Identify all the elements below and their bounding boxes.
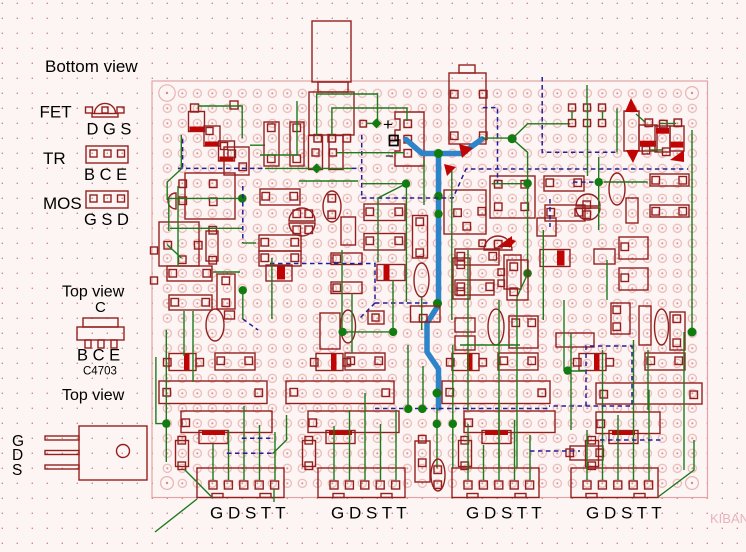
wire ch4 vertical b (606, 260, 608, 300)
legend MOS package symbol (86, 191, 128, 208)
junction right top (595, 178, 603, 186)
capacitor C7 vertical (504, 255, 521, 289)
pads below potentiometer (312, 149, 319, 156)
output connector CN4 wires (586, 430, 588, 480)
potentiometer VR1 base on board (309, 92, 354, 135)
junction on blue trace mid1 (434, 192, 442, 200)
capacitor D1f vertical (176, 441, 189, 467)
transistor pad block (224, 147, 249, 175)
jumper wire dashed mid horizontal (270, 264, 375, 304)
red arrow near blue trace (459, 144, 473, 158)
resistor R13 vertical (413, 216, 428, 259)
wire mid right down (527, 184, 529, 274)
label E terminal (390, 136, 399, 146)
wire ch1 diag u2 (167, 245, 181, 259)
wire connector1 diagonal off board (155, 499, 197, 532)
jumper wire dashed main horizontal b (352, 167, 362, 169)
output connector CN4 notch left (586, 494, 597, 498)
block mid right (537, 218, 556, 236)
output connector CN3 pads (464, 481, 472, 489)
wire pad link c (602, 111, 604, 120)
block ch3 a (455, 318, 475, 332)
output connector CN1 pads (209, 481, 217, 489)
wire top-left bend (167, 135, 181, 200)
wire conn1 pad5 down (273, 489, 275, 502)
transistor Q5 ellipse (414, 263, 429, 297)
wire ch1 vertical b (192, 311, 194, 382)
transistor Q9 ellipse (609, 173, 625, 205)
jumper wire dashed main horizontal (178, 167, 265, 169)
red arrow ch4 down (626, 150, 639, 163)
block U2 tall (159, 222, 199, 266)
wire right horizontal y182 (604, 181, 648, 183)
resistor R19 vertical tall (624, 111, 639, 151)
output connector CN2 notch right (381, 494, 392, 498)
resistor R6 horizontal (169, 295, 212, 310)
wire green row y181 (299, 180, 358, 182)
wire top right diag (636, 114, 645, 122)
legend TO-92 package top view (77, 318, 124, 348)
wire pot area a (317, 94, 378, 136)
diode D1a with band (169, 354, 196, 371)
power terminal J1 body (395, 112, 424, 166)
pad near power terminal (360, 121, 367, 128)
wire ch1 vertical c (177, 186, 179, 266)
wire connector1 diagonal (184, 469, 212, 498)
resistor D4d long (596, 412, 660, 434)
mounting hole top-left (159, 85, 175, 101)
potentiometer VR1 pins (314, 135, 322, 143)
wire q5 down (421, 297, 423, 330)
thick blue trace right arm (439, 139, 483, 154)
transistor Q8 ellipse (488, 309, 504, 345)
resistor R4 small vertical (206, 231, 218, 261)
wire ch3 right vertical (542, 230, 544, 320)
wire mid right horizontal (492, 183, 528, 185)
resistor D4b horizontal (645, 353, 685, 370)
jumper wire dashed bottom left (227, 452, 273, 454)
svg-text:MOS: MOS (43, 194, 82, 213)
junction blue-end (508, 134, 517, 143)
transistor Q2 dome up (289, 208, 315, 221)
red arrow q7 (508, 238, 516, 248)
pad ch4 d (642, 147, 650, 155)
wire right grid vertical (616, 109, 618, 153)
output connector CN2 body (318, 468, 405, 498)
IC U3 outline (444, 190, 486, 234)
resistor D4c long (596, 383, 702, 404)
wire left long vertical (165, 330, 167, 462)
resistor D3b horizontal (498, 353, 538, 370)
block ch4 mid b (619, 268, 648, 290)
trimmer D2e (326, 431, 355, 444)
pad ch4 c (674, 119, 682, 127)
resistor R5 horizontal (167, 266, 212, 281)
resistor R16 horizontal (545, 205, 585, 221)
jumper wire dashed bottom mid (600, 439, 661, 441)
svg-text:TR: TR (43, 149, 66, 168)
svg-text:D G S: D G S (87, 121, 132, 139)
pad left edge A (151, 247, 158, 254)
resistor R3b vertical (329, 136, 343, 170)
wire top right pads link (660, 123, 676, 125)
red arrow mid right (497, 236, 512, 247)
wire ch2 vertical b (351, 293, 353, 353)
wire left edge lower (156, 357, 166, 424)
wire ch3 vertical b (498, 300, 500, 468)
legend FET package symbol (86, 103, 125, 117)
capacitor D3f vertical (459, 441, 472, 467)
wire ch4 pads link (649, 149, 663, 151)
resistor D3c long (442, 381, 550, 404)
resistor R3 vertical (309, 136, 323, 170)
resistor R1 vertical (264, 122, 279, 166)
block ch4 lower a (611, 303, 630, 334)
red arrow ch4 up (625, 98, 638, 112)
pad ch4 e (663, 148, 671, 156)
pad top-left A (191, 104, 199, 112)
block ch4 lower b (670, 312, 685, 350)
block ch3 c (509, 316, 538, 348)
capacitor centre bottom (415, 441, 430, 482)
block square lower (320, 313, 340, 349)
output connector CN4 body (571, 468, 658, 498)
transistor Q12 ellipse bottom (431, 459, 445, 491)
resistor R8 horizontal (259, 235, 301, 251)
svg-text:B C E: B C E (84, 166, 127, 184)
resistor D4g small (570, 446, 603, 460)
capacitor D4f vertical (586, 441, 599, 467)
potentiometer VR1 neck (318, 82, 348, 92)
capacitor C2 with polarity bar (204, 126, 220, 146)
wire ch1 horizontal (170, 227, 242, 229)
connector J2 body (449, 73, 486, 144)
resistor R14 horizontal (544, 176, 584, 191)
block small B (331, 282, 362, 294)
resistor R2 vertical (290, 122, 304, 166)
board pad grid (158, 86, 701, 491)
capacitor C8 with bar (540, 250, 570, 267)
output connector CN2 notch left (333, 494, 344, 498)
resistor R10 vertical (341, 217, 356, 245)
svg-text:G D S T T: G D S T T (210, 504, 286, 523)
transistor Q6 ellipse (341, 310, 356, 343)
wire ch1 horizontal u1 (169, 197, 242, 199)
wire centre vertical F (436, 408, 438, 468)
junction ch2 b (389, 328, 397, 336)
wire pot area b (332, 108, 407, 136)
junction diamond near J1 (372, 118, 382, 128)
junction on blue trace mid1b (434, 210, 442, 218)
output connector CN1 body (197, 468, 284, 498)
wire mid right diag down (517, 274, 528, 330)
jumper wire dashed mid diag (358, 303, 375, 320)
resistor R18 horizontal (455, 280, 494, 295)
capacitor C10 with bar (655, 126, 670, 152)
wire pot pin down (260, 101, 297, 155)
block ch4 mid c (594, 249, 615, 264)
trimmer D4e (609, 431, 638, 444)
jumper wire dashed right box (549, 346, 632, 406)
jumper wire dashed long bottom (375, 408, 549, 410)
mounting hole top-right (686, 87, 699, 100)
output connector CN3 notch left (467, 494, 478, 498)
output connector CN4 notch right (634, 494, 645, 498)
junction ch1 r7 (238, 194, 246, 202)
wire ch1 left vertical (168, 198, 170, 231)
junction on blue trace top (434, 149, 443, 158)
wire ch1 stub (243, 242, 256, 244)
jumper wire dashed left diag (243, 319, 258, 330)
wire ch2 link dots (343, 331, 394, 333)
output connector CN1 notch left (212, 494, 223, 498)
resistor R23 vertical (639, 306, 651, 345)
wire centre horizontal A (362, 183, 406, 185)
wire ch3 horizontal (460, 344, 520, 346)
wire right grid vertical b (587, 104, 589, 176)
junction centre D (404, 405, 412, 413)
pad grid row upper (569, 104, 576, 111)
svg-text:C4703: C4703 (83, 366, 117, 378)
resistor D1c long (159, 381, 267, 404)
svg-text:G S D: G S D (84, 211, 129, 229)
jumper wire dashed mid to blue (375, 302, 430, 304)
wire ch2 vertical c (392, 280, 394, 331)
wire ch3 vertical c (516, 330, 518, 468)
jumper wire dashed right stub (573, 181, 598, 183)
potentiometer VR1 body (312, 21, 351, 82)
capacitor C4 vertical (217, 274, 235, 309)
resistor R12 horizontal (364, 234, 405, 251)
transistor Q1 semicircle (168, 193, 176, 209)
output connector CN3 notch right (515, 494, 526, 498)
resistor R9 horizontal (259, 251, 301, 266)
transistor Q7 dome (484, 236, 512, 250)
junction left (162, 419, 170, 427)
junction on blue trace mid2 (433, 299, 442, 308)
capacitor C3 with polarity bar (219, 141, 235, 161)
IC U1 outline (185, 173, 235, 219)
wire pad link a (571, 111, 573, 120)
wire blue-end link (482, 137, 511, 139)
wire pad link b (586, 85, 588, 104)
connector J2 pads (451, 91, 459, 99)
block small A (331, 253, 362, 265)
wire ch4 vertical a (647, 350, 649, 410)
resistor D3d long (464, 411, 555, 433)
resistor R17 vertical (453, 258, 470, 299)
svg-text:G D S T T: G D S T T (586, 504, 662, 523)
svg-text:G D S T T: G D S T T (466, 504, 542, 523)
pad ch4 a (645, 119, 653, 127)
junction ch2 a (338, 328, 346, 336)
mounting hole bottom-left (161, 477, 174, 490)
jumper wire dashed centre vertical (361, 135, 363, 198)
pad rotated left of blue (368, 311, 384, 324)
transistor Q11 ellipse (655, 309, 669, 345)
resistor R22 vertical (626, 198, 638, 223)
wire pot area c (337, 152, 404, 154)
wire centre vertical E (422, 366, 424, 409)
wire right mid vertical (598, 157, 600, 230)
junction far right (688, 328, 697, 337)
svg-text:FET: FET (40, 103, 72, 122)
thick blue trace main (406, 140, 439, 409)
wire ch1 vertical d (242, 292, 244, 319)
wire connector4 diagonal (658, 440, 694, 497)
wire centre vertical B (423, 160, 425, 205)
output connector CN4 pads (583, 481, 591, 489)
block ch3 right mid (507, 260, 528, 300)
svg-text:+: + (383, 115, 393, 134)
output connector CN3 wires (467, 424, 469, 480)
resistor R11 horizontal (364, 204, 405, 221)
junction right mid (564, 366, 572, 374)
jumper wire dashed short right (549, 199, 551, 227)
resistor R15 horizontal (455, 249, 499, 265)
block under blue jog (411, 306, 441, 322)
wire centre vertical C (451, 171, 453, 320)
transistor Q4 ellipse (323, 191, 341, 222)
junction centre G (449, 420, 457, 428)
junction ch1 mid (239, 286, 247, 294)
pad left of Q7 (479, 240, 486, 247)
legend TO-220 package top view (45, 426, 147, 480)
wire right mid b (564, 370, 586, 372)
jumper wire dashed left mid vertical (242, 186, 244, 243)
junction centre F (433, 420, 441, 428)
wire pad to diamond (366, 122, 374, 124)
wire centre vertical G (452, 345, 454, 468)
wire ch1 horizontal b (213, 271, 240, 273)
svg-text:−: − (385, 148, 394, 165)
wire green row y168 (265, 167, 352, 169)
wire far right vertical (691, 130, 693, 332)
pad ch4 b (660, 120, 668, 128)
mounting hole bottom-right (686, 477, 699, 490)
legend TR package symbol (86, 146, 128, 163)
resistor R7 horizontal (260, 189, 300, 205)
capacitor D2f vertical (303, 441, 316, 467)
wire junction to pad row (512, 124, 570, 139)
svg-text:B C E: B C E (77, 347, 120, 365)
junction mid right (523, 179, 531, 187)
wire ch3 vertical a (467, 250, 469, 410)
wire centre vertical D (407, 345, 409, 409)
capacitor C11 with bar (670, 126, 684, 151)
wire right mid a (563, 300, 565, 371)
wire cap cluster to R1 (250, 144, 265, 146)
IC U4 outline (490, 176, 535, 218)
capacitor C5 with bar (266, 265, 292, 281)
capacitor C1 with polarity bar (189, 112, 205, 132)
power terminal J1 pads (404, 120, 412, 128)
jumper wire dashed connector box (483, 108, 498, 184)
wire ch1 vertical e (271, 258, 273, 319)
transistor Q3 dome down (289, 223, 315, 236)
trimmer D1e (199, 431, 228, 444)
junction diamond on green row (312, 163, 322, 173)
wire ch2 vertical a (341, 250, 343, 331)
svg-text:Bottom view: Bottom view (45, 57, 138, 76)
block ch3 b (455, 336, 475, 350)
resistor R21 horizontal (650, 205, 689, 217)
diode D3a with band (452, 354, 479, 371)
svg-text:Top view: Top view (62, 284, 125, 301)
jumper wire dashed right column (542, 77, 616, 152)
pad top-left B (230, 101, 238, 109)
resistor R20 horizontal (650, 174, 689, 186)
output connector CN1 wires (212, 444, 214, 480)
junction on blue trace bottom (433, 389, 442, 398)
resistor D2d long (308, 411, 399, 433)
pad left edge B (151, 277, 158, 284)
svg-text:Top view: Top view (62, 387, 125, 404)
svg-text:G D S T T: G D S T T (331, 504, 407, 523)
transistor Q13 can ch1 (206, 309, 224, 341)
red arrow small near blue trace (444, 164, 456, 176)
jumper wire dashed bottom ch3 (530, 450, 580, 452)
output connector CN2 pads (330, 481, 338, 489)
diode D2a with band (316, 354, 343, 371)
resistor D2c long (286, 381, 394, 404)
jumper wire dashed main right (362, 169, 688, 198)
resistor D2b horizontal (345, 353, 385, 370)
red arrow ch4 down-left (670, 150, 684, 162)
block ch4 mid a (619, 237, 648, 259)
jumper wire dashed top-left vertical (182, 139, 184, 168)
jumper wire dashed bottom left2 (242, 437, 272, 439)
resistor D1d long (181, 411, 272, 433)
wire centre vertical A (405, 184, 407, 302)
wire ch1 diag to dash (273, 415, 287, 454)
diode D4a with band (579, 354, 606, 371)
output connector CN1 notch right (260, 494, 271, 498)
svg-text:C: C (95, 299, 106, 316)
wire centre diagonal down (378, 184, 406, 262)
resistor D1b horizontal (215, 353, 255, 370)
pad grid row lower (569, 120, 576, 127)
transistor Q10 dome pair (576, 194, 600, 206)
junction centre E (418, 405, 426, 413)
junction centre A (402, 180, 410, 188)
wire right mid c (570, 333, 572, 430)
wire top-left horizontal (198, 106, 243, 138)
svg-text:S: S (12, 462, 22, 479)
wire far right lower (683, 332, 685, 470)
capacitor C6 with bar (377, 265, 405, 281)
trimmer D3e (482, 431, 511, 444)
wire junction down (512, 139, 528, 184)
board outline (152, 81, 708, 498)
resistor R24 horizontal (556, 333, 594, 347)
wire ch1 vertical a (183, 311, 185, 356)
capacitor C9 with bar (639, 125, 657, 151)
connector J2 tab (459, 65, 475, 73)
output connector CN3 body (452, 468, 539, 498)
svg-text:KIBAN2: KIBAN2 (710, 511, 746, 526)
junction mid right lower (523, 269, 531, 277)
output connector CN2 wires (333, 426, 335, 480)
